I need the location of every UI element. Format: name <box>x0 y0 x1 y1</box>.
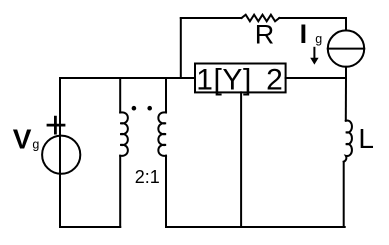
wire right branch lower <box>343 162 345 227</box>
transformer secondary winding <box>158 112 166 156</box>
voltage source Vg circle <box>42 136 80 174</box>
resistor R <box>242 15 280 22</box>
transformer primary lead bottom <box>119 156 121 227</box>
svg-text:I: I <box>300 19 308 49</box>
svg-text:1[Y]: 1[Y] <box>196 64 252 97</box>
wire bottom rail right loop <box>166 226 345 228</box>
transformer primary winding <box>120 112 128 156</box>
current source Ig circle <box>328 30 364 66</box>
svg-text:g: g <box>32 138 39 152</box>
svg-text:2: 2 <box>266 64 283 97</box>
svg-text:g: g <box>315 32 322 46</box>
wire through Vg <box>59 135 61 227</box>
svg-text:2:1: 2:1 <box>135 167 160 187</box>
arrow for Ig <box>313 48 315 59</box>
two-port box U1 <box>195 64 286 93</box>
svg-text:R: R <box>255 19 275 49</box>
wire top right segment <box>279 18 346 30</box>
wire Y-box bottom tap <box>240 92 242 227</box>
dot transformer primary <box>132 106 137 111</box>
wire main node (Vg top to Y-box port1) <box>60 77 195 79</box>
current source Ig bar <box>328 48 364 50</box>
wire bottom rail left loop <box>60 226 120 228</box>
wire top left segment <box>181 17 242 19</box>
svg-text:V: V <box>13 124 32 155</box>
plus sign of Vg <box>48 117 64 133</box>
inductor L <box>344 121 352 162</box>
transformer primary lead top <box>119 78 121 113</box>
wire right branch upper <box>345 78 347 121</box>
transformer secondary lead top <box>165 78 167 113</box>
wire top-loop left vertical <box>180 18 182 78</box>
dot transformer secondary <box>147 106 152 111</box>
arrowhead of Ig arrow <box>310 58 318 65</box>
svg-text:L: L <box>358 123 374 154</box>
wire Y-box port2 to right branch <box>286 77 346 79</box>
transformer secondary lead bottom <box>165 156 167 227</box>
wire Vg upper lead <box>59 78 61 135</box>
wire from current source down to node <box>345 67 347 78</box>
